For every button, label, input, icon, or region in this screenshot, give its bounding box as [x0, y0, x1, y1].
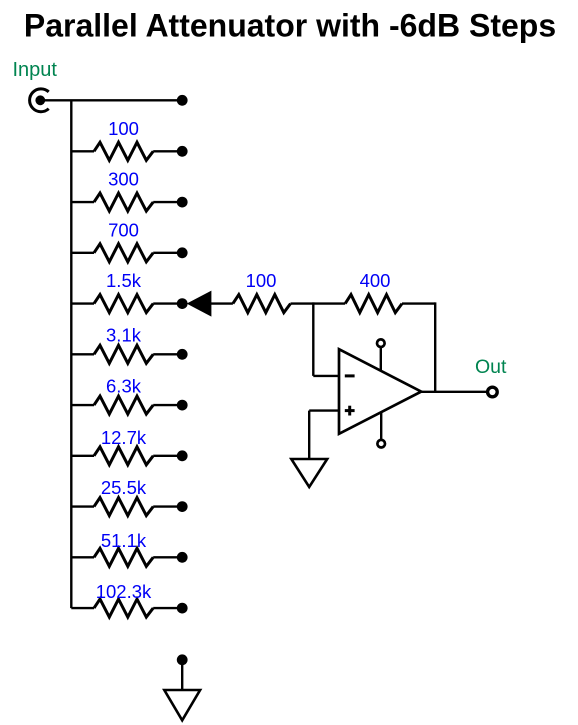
wire feedback vertical to output	[434, 302, 436, 391]
svg-text:Parallel Attenuator with -6dB: Parallel Attenuator with -6dB Steps	[24, 7, 556, 43]
node top terminal dot	[177, 95, 188, 106]
node tap 6 dot	[177, 400, 188, 411]
wire input to top terminal	[40, 99, 182, 101]
output terminal circle	[488, 387, 498, 397]
resistor R12 (400)	[345, 295, 402, 313]
svg-text:51.1k: 51.1k	[101, 530, 147, 551]
svg-text:25.5k: 25.5k	[101, 477, 147, 498]
op-amp V+ power pin	[377, 339, 385, 370]
node tap 1 dot	[177, 146, 188, 157]
wire into inverting input	[313, 375, 339, 377]
wire arrow to R11	[211, 302, 233, 304]
svg-text:Input: Input	[13, 59, 58, 81]
svg-text:100: 100	[246, 270, 277, 291]
svg-text:Out: Out	[475, 356, 507, 378]
svg-text:12.7k: 12.7k	[101, 427, 147, 448]
op-amp minus sign	[345, 374, 355, 377]
resistor R4 (1.5k)	[71, 295, 182, 313]
node tap 10 dot	[177, 603, 188, 614]
node tap 9 dot	[177, 552, 188, 563]
resistor R3 (700)	[71, 244, 182, 262]
node tap 8 dot	[177, 501, 188, 512]
resistor R8 (25.5k)	[71, 498, 182, 516]
resistor R2 (300)	[71, 193, 182, 211]
node tap 4 dot	[177, 298, 188, 309]
svg-text:700: 700	[108, 219, 139, 240]
wire R11 to summing node	[291, 302, 346, 304]
wire R12 to feedback drop	[402, 302, 435, 304]
resistor R5 (3.1k)	[71, 345, 182, 363]
resistor R10 (102.3k)	[71, 599, 182, 617]
op-amp U1 triangle	[339, 349, 421, 434]
resistor R1 (100)	[71, 142, 182, 160]
node tap 2 dot	[177, 197, 188, 208]
ground GND2 (bottom)	[164, 690, 200, 720]
wire summing node down	[312, 302, 314, 376]
op-amp V- power pin	[377, 412, 385, 447]
resistor R7 (12.7k)	[71, 447, 182, 465]
node tap 5 dot	[177, 349, 188, 360]
svg-text:102.3k: 102.3k	[96, 581, 152, 602]
node tap 3 dot	[177, 247, 188, 258]
resistor R6 (6.3k)	[71, 396, 182, 414]
ground GND1 (op-amp)	[291, 459, 327, 487]
svg-text:400: 400	[360, 270, 391, 291]
svg-text:1.5k: 1.5k	[106, 270, 142, 291]
wiper arrow (tap selector)	[188, 291, 211, 315]
node ground dot	[177, 654, 188, 665]
op-amp plus sign	[345, 406, 355, 416]
resistor R9 (51.1k)	[71, 548, 182, 566]
wire op-amp output	[421, 391, 487, 393]
svg-text:6.3k: 6.3k	[106, 376, 142, 397]
resistor R11 (100)	[233, 295, 291, 313]
svg-text:300: 300	[108, 169, 139, 190]
wire noninverting input to ground	[309, 411, 339, 459]
wire input bus vertical	[70, 100, 72, 608]
svg-text:3.1k: 3.1k	[106, 324, 142, 345]
svg-text:100: 100	[108, 118, 139, 139]
input connector J1	[30, 89, 49, 112]
wire ground stub	[181, 660, 183, 690]
node tap 7 dot	[177, 450, 188, 461]
